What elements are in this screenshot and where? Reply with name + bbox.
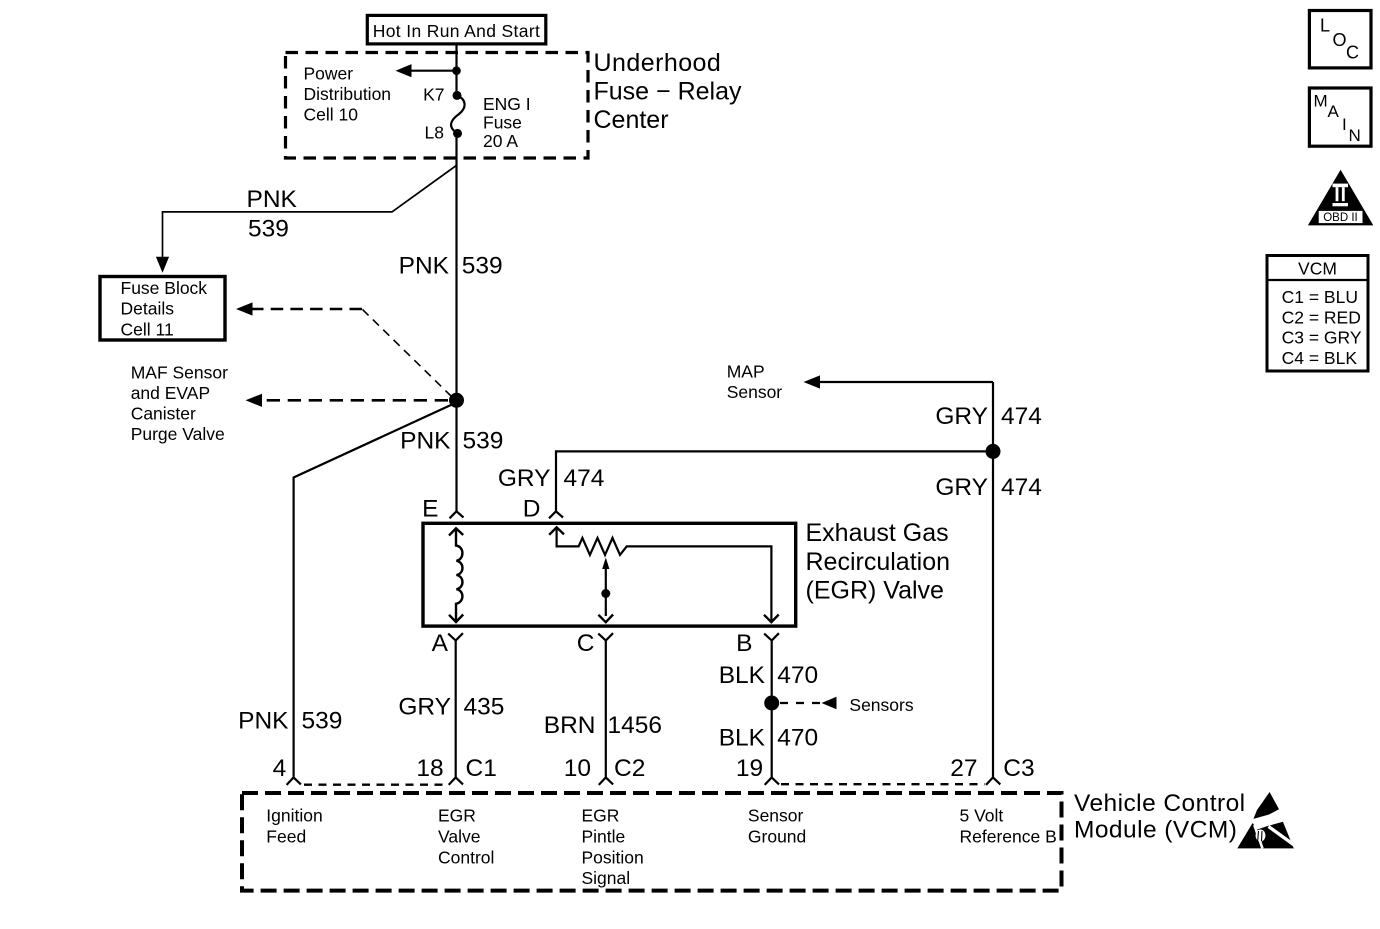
dashed connector row between pin 19 and pin 27 bbox=[781, 783, 985, 785]
svg-text:B: B bbox=[736, 630, 752, 657]
svg-text:Recirculation: Recirculation bbox=[806, 548, 951, 576]
label Ignition Feed bbox=[266, 806, 322, 847]
label K7 bbox=[423, 85, 444, 105]
svg-text:L8: L8 bbox=[425, 123, 444, 143]
svg-text:539: 539 bbox=[462, 252, 503, 279]
wire GRY 474 from EGR pin D up and right to splice S2 bbox=[556, 451, 993, 511]
connector half at EGR pin D bbox=[549, 511, 563, 518]
svg-text:and EVAP: and EVAP bbox=[131, 383, 210, 403]
svg-text:Fuse Block: Fuse Block bbox=[121, 278, 208, 298]
svg-text:M: M bbox=[1314, 92, 1328, 111]
dashed reference arrow from splice S1 to MAF Sensor / EVAP bbox=[246, 394, 449, 407]
svg-text:Ground: Ground bbox=[748, 826, 806, 846]
label GRY 474 (below splice S2) bbox=[935, 474, 1042, 501]
node splice S1 on PNK 539 bbox=[449, 393, 464, 408]
label pin B bbox=[736, 630, 752, 657]
OBD II symbol (black triangle) bbox=[1308, 170, 1373, 226]
svg-text:A: A bbox=[1328, 102, 1340, 121]
label pin 18 bbox=[416, 755, 443, 782]
svg-text:5 Volt: 5 Volt bbox=[960, 806, 1004, 826]
wiper arm of potentiometer (to pin C) bbox=[598, 558, 613, 623]
connector half at EGR pin E bbox=[450, 511, 464, 518]
svg-text:Module (VCM): Module (VCM) bbox=[1074, 817, 1237, 844]
label GRY 474 (pin D wire) bbox=[498, 465, 605, 492]
wire arrow to MAP Sensor bbox=[804, 375, 994, 388]
svg-text:C4 = BLK: C4 = BLK bbox=[1282, 348, 1358, 368]
svg-text:C2: C2 bbox=[614, 755, 645, 782]
svg-text:539: 539 bbox=[248, 215, 289, 242]
svg-text:470: 470 bbox=[777, 662, 818, 689]
svg-text:Pintle: Pintle bbox=[582, 826, 626, 846]
connector half at VCM pin 4 bbox=[287, 777, 301, 785]
label Sensor Ground bbox=[748, 806, 806, 847]
label pin D bbox=[523, 496, 541, 523]
Vehicle Control Module dashed box bbox=[242, 793, 1062, 891]
label 5 Volt Reference B bbox=[960, 806, 1057, 847]
wire PNK 539 vertical from fuse L8 down to splice S1 bbox=[455, 133, 457, 400]
svg-text:474: 474 bbox=[1001, 474, 1042, 501]
svg-text:Cell 11: Cell 11 bbox=[121, 319, 174, 339]
label pin 27 bbox=[950, 755, 977, 782]
wire PNK 539 from splice S1 to EGR pin E bbox=[455, 400, 457, 511]
svg-text:Reference B: Reference B bbox=[960, 826, 1057, 846]
svg-text:Hot In Run And Start: Hot In Run And Start bbox=[373, 21, 541, 41]
svg-text:Valve: Valve bbox=[438, 826, 480, 846]
MAIN reference box bbox=[1309, 88, 1371, 146]
label PNK 539 (branch wire) bbox=[247, 186, 298, 242]
dashed connector row between pin 4 and pin 18 bbox=[304, 784, 447, 786]
node pin K7 of fuse bbox=[453, 91, 462, 100]
svg-text:539: 539 bbox=[463, 428, 504, 455]
svg-text:A: A bbox=[432, 630, 449, 657]
wire GRY 474 vertical right from MAP arrow to VCM pin 27 bbox=[992, 382, 994, 777]
connector half at EGR pin C bbox=[598, 633, 613, 640]
label BRN 1456 bbox=[544, 712, 662, 739]
svg-text:EGR: EGR bbox=[582, 806, 620, 826]
svg-text:K7: K7 bbox=[423, 85, 444, 105]
solenoid coil L1 inside EGR valve (pin E to pin A) bbox=[449, 528, 463, 622]
svg-text:C: C bbox=[577, 630, 595, 657]
svg-text:C1 = BLU: C1 = BLU bbox=[1282, 287, 1358, 307]
svg-text:O: O bbox=[1333, 30, 1347, 50]
svg-text:Sensor: Sensor bbox=[748, 806, 804, 826]
svg-text:GRY: GRY bbox=[498, 465, 551, 492]
svg-text:Canister: Canister bbox=[131, 404, 196, 424]
label pin 10 bbox=[564, 755, 591, 782]
connector half at VCM pin 18 bbox=[449, 777, 463, 785]
wire branch to Power Distribution (arrow left) bbox=[396, 64, 457, 77]
svg-text:474: 474 bbox=[1001, 403, 1042, 430]
connector half at VCM pin 27 bbox=[986, 777, 1000, 785]
svg-text:L: L bbox=[1320, 16, 1330, 36]
svg-text:PNK: PNK bbox=[238, 708, 289, 735]
label PNK 539 (on main wire above splice) bbox=[399, 252, 503, 279]
svg-text:Power: Power bbox=[304, 64, 354, 84]
Underhood Fuse-Relay Center dashed box bbox=[286, 53, 589, 159]
svg-text:20 A: 20 A bbox=[483, 131, 518, 151]
svg-text:Fuse: Fuse bbox=[483, 113, 522, 133]
svg-text:27: 27 bbox=[950, 755, 977, 782]
label Exhaust Gas Recirculation (EGR) Valve bbox=[806, 519, 951, 604]
svg-text:C3: C3 bbox=[1003, 755, 1034, 782]
power source box "Hot In Run And Start" bbox=[367, 15, 546, 44]
svg-text:BLK: BLK bbox=[719, 725, 766, 752]
svg-text:Sensor: Sensor bbox=[727, 382, 783, 402]
svg-text:19: 19 bbox=[736, 755, 763, 782]
svg-text:EGR: EGR bbox=[438, 806, 476, 826]
label pin 19 bbox=[736, 755, 763, 782]
wire PNK 539 main vertical from Hot box to fuse K7 bbox=[455, 44, 457, 96]
svg-text:PNK: PNK bbox=[400, 428, 451, 455]
svg-text:435: 435 bbox=[464, 693, 505, 720]
svg-text:474: 474 bbox=[564, 465, 605, 492]
svg-text:Fuse − Relay: Fuse − Relay bbox=[594, 77, 742, 105]
wire branch diagonal to Fuse Block Details bbox=[156, 166, 456, 273]
svg-text:(EGR) Valve: (EGR) Valve bbox=[806, 576, 944, 604]
svg-text:MAP: MAP bbox=[727, 362, 765, 382]
label MAF Sensor and EVAP Canister Purge Valve bbox=[131, 362, 228, 444]
svg-text:C1: C1 bbox=[466, 755, 497, 782]
svg-text:Underhood: Underhood bbox=[594, 49, 722, 77]
ESD sensitivity symbol bbox=[1237, 792, 1295, 848]
svg-text:C2 = RED: C2 = RED bbox=[1282, 307, 1361, 327]
svg-text:C: C bbox=[1346, 43, 1359, 63]
svg-text:Distribution: Distribution bbox=[304, 84, 392, 104]
label EGR Pintle Position Signal bbox=[582, 806, 644, 889]
svg-text:1456: 1456 bbox=[608, 712, 663, 739]
connector half at EGR pin A bbox=[448, 633, 463, 640]
node junction at Power Distribution branch bbox=[452, 66, 461, 75]
connector half at VCM pin 10 bbox=[599, 777, 613, 785]
wire BRN 1456 from EGR pin C to VCM pin 10 bbox=[605, 641, 607, 778]
svg-text:Control: Control bbox=[438, 847, 494, 867]
connector half at VCM pin 19 bbox=[765, 777, 779, 785]
VCM connector color table bbox=[1267, 256, 1368, 372]
svg-text:Signal: Signal bbox=[582, 868, 631, 888]
svg-text:Vehicle Control: Vehicle Control bbox=[1074, 790, 1246, 817]
svg-text:GRY: GRY bbox=[935, 403, 988, 430]
Fuse Block Details Cell 11 box bbox=[100, 277, 225, 341]
svg-text:E: E bbox=[422, 496, 438, 523]
svg-text:Cell 10: Cell 10 bbox=[304, 105, 359, 125]
wire BLK 470 from EGR pin B to VCM pin 19 bbox=[771, 641, 773, 778]
svg-text:MAF Sensor: MAF Sensor bbox=[131, 362, 228, 382]
svg-text:Sensors: Sensors bbox=[849, 695, 913, 715]
label Power Distribution Cell 10 bbox=[304, 64, 392, 125]
label pin E bbox=[422, 496, 438, 523]
label Vehicle Control Module (VCM) bbox=[1074, 790, 1246, 844]
svg-text:PNK: PNK bbox=[247, 186, 298, 213]
wire GRY 435 from EGR pin A to VCM pin 18 bbox=[455, 641, 457, 778]
label Underhood Fuse-Relay Center bbox=[594, 49, 742, 134]
svg-text:18: 18 bbox=[416, 755, 443, 782]
svg-text:Ignition: Ignition bbox=[266, 806, 322, 826]
label EGR Valve Control bbox=[438, 806, 494, 868]
label BLK 470 (above splice S3) bbox=[719, 662, 819, 689]
svg-text:I: I bbox=[1342, 115, 1347, 134]
svg-text:Purge Valve: Purge Valve bbox=[131, 424, 225, 444]
dashed reference arrow from splice S1 to Fuse Block Details bbox=[236, 302, 452, 396]
svg-text:539: 539 bbox=[302, 708, 343, 735]
label Sensors bbox=[849, 695, 913, 715]
svg-text:C3 = GRY: C3 = GRY bbox=[1282, 328, 1362, 348]
svg-text:Feed: Feed bbox=[266, 826, 306, 846]
label PNK 539 (below splice) bbox=[400, 428, 503, 455]
node splice S2 on GRY 474 bbox=[986, 444, 1001, 459]
svg-text:OBD II: OBD II bbox=[1323, 212, 1358, 224]
node splice S3 on BLK 470 bbox=[764, 696, 779, 711]
label MAP Sensor bbox=[727, 362, 783, 402]
label connector C3 bbox=[1003, 755, 1034, 782]
label connector C1 bbox=[466, 755, 497, 782]
svg-text:D: D bbox=[523, 496, 541, 523]
svg-text:N: N bbox=[1349, 126, 1361, 145]
svg-text:Exhaust Gas: Exhaust Gas bbox=[806, 519, 949, 547]
EGR valve component box bbox=[423, 523, 796, 626]
label pin C bbox=[577, 630, 595, 657]
svg-text:470: 470 bbox=[777, 725, 818, 752]
svg-text:Position: Position bbox=[582, 847, 644, 867]
label pin A bbox=[432, 630, 449, 657]
svg-text:GRY: GRY bbox=[398, 693, 451, 720]
svg-text:Details: Details bbox=[121, 299, 175, 319]
svg-text:GRY: GRY bbox=[935, 474, 988, 501]
svg-text:Center: Center bbox=[594, 106, 669, 134]
svg-text:BLK: BLK bbox=[719, 662, 766, 689]
svg-text:10: 10 bbox=[564, 755, 591, 782]
label L8 bbox=[425, 123, 444, 143]
svg-text:BRN: BRN bbox=[544, 712, 596, 739]
svg-text:ENG I: ENG I bbox=[483, 94, 531, 114]
label GRY 474 (above splice S2) bbox=[935, 403, 1042, 430]
label pin 4 bbox=[273, 755, 287, 782]
wire PNK 539 diagonal branch from splice to VCM pin 4 bbox=[294, 405, 452, 778]
label ENG I Fuse 20 A bbox=[483, 94, 531, 151]
svg-text:4: 4 bbox=[273, 755, 287, 782]
label GRY 435 bbox=[398, 693, 504, 720]
potentiometer R1 inside EGR valve (pin D arrow and zigzag) bbox=[549, 527, 779, 622]
svg-text:VCM: VCM bbox=[1298, 259, 1337, 279]
connector half at EGR pin B bbox=[764, 633, 779, 640]
fuse F1 ENG I 20A (S-curve element) bbox=[451, 95, 465, 133]
node pin L8 of fuse bbox=[453, 129, 462, 138]
dashed reference arrow from splice S3 to Sensors bbox=[780, 697, 837, 710]
svg-text:PNK: PNK bbox=[399, 252, 450, 279]
LOC reference box bbox=[1309, 11, 1371, 68]
label connector C2 bbox=[614, 755, 645, 782]
label BLK 470 (below splice S3) bbox=[719, 725, 819, 752]
label PNK 539 (VCM pin 4 wire) bbox=[238, 708, 342, 735]
